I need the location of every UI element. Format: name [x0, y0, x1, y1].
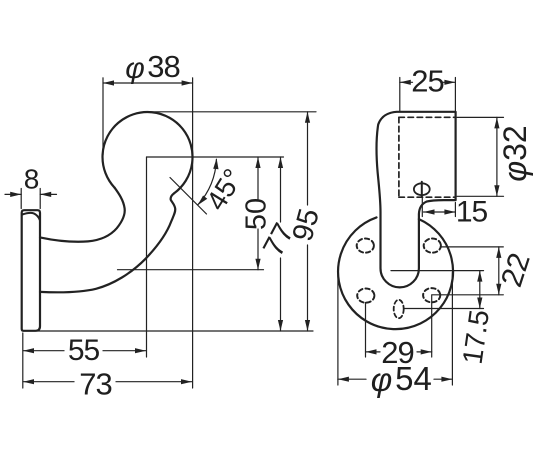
svg-text:22: 22 — [495, 249, 537, 291]
dim phi38 — [103, 78, 193, 388]
baseline (plate bottom) — [37, 330, 313, 332]
dim phi32 — [457, 117, 504, 196]
svg-text:38: 38 — [147, 49, 179, 84]
dashed rail rect — [399, 117, 455, 197]
svg-text:55: 55 — [68, 334, 100, 367]
dim 73 — [23, 379, 192, 384]
svg-text:15: 15 — [456, 196, 488, 229]
svg-text:73: 73 — [79, 367, 111, 402]
dim 95 — [305, 112, 310, 331]
svg-text:φ32: φ32 — [497, 125, 533, 181]
flange circle — [338, 217, 453, 329]
center line (ball center) — [147, 156, 284, 158]
plate cap seam — [22, 213, 40, 220]
svg-text:95: 95 — [287, 205, 326, 244]
arm upper edge — [40, 188, 125, 242]
svg-text:25: 25 — [411, 64, 443, 99]
tangent line (top of ball) — [150, 111, 316, 113]
dim 8 — [5, 189, 57, 209]
45 deg arc — [198, 159, 217, 204]
dim 17.5 — [477, 271, 482, 309]
45 deg slash — [170, 178, 207, 215]
screw holes — [357, 239, 441, 303]
reference lines right view — [441, 246, 503, 248]
flange-center reference line — [118, 269, 264, 271]
svg-text:φ: φ — [125, 52, 145, 85]
dim 25 — [400, 78, 456, 112]
svg-text:54: 54 — [395, 360, 432, 397]
dim 55 — [23, 333, 146, 388]
dim 50 — [255, 157, 260, 270]
grub screw — [414, 183, 430, 195]
dim 29 — [366, 296, 432, 358]
dim 15 — [422, 198, 455, 217]
svg-text:17.5: 17.5 — [457, 308, 495, 366]
small bottom hole — [394, 300, 404, 318]
dim phi54 — [338, 272, 453, 385]
wall plate (side view) — [22, 210, 40, 331]
dim 22 — [496, 247, 501, 295]
svg-text:φ: φ — [371, 361, 393, 398]
dim 77 — [278, 157, 283, 331]
center vertical (ball center) — [146, 157, 148, 357]
svg-text:8: 8 — [24, 164, 40, 195]
arm lower edge — [40, 193, 175, 292]
cap + neck + U outline — [377, 112, 456, 288]
saddle ball (side view) — [103, 112, 193, 193]
